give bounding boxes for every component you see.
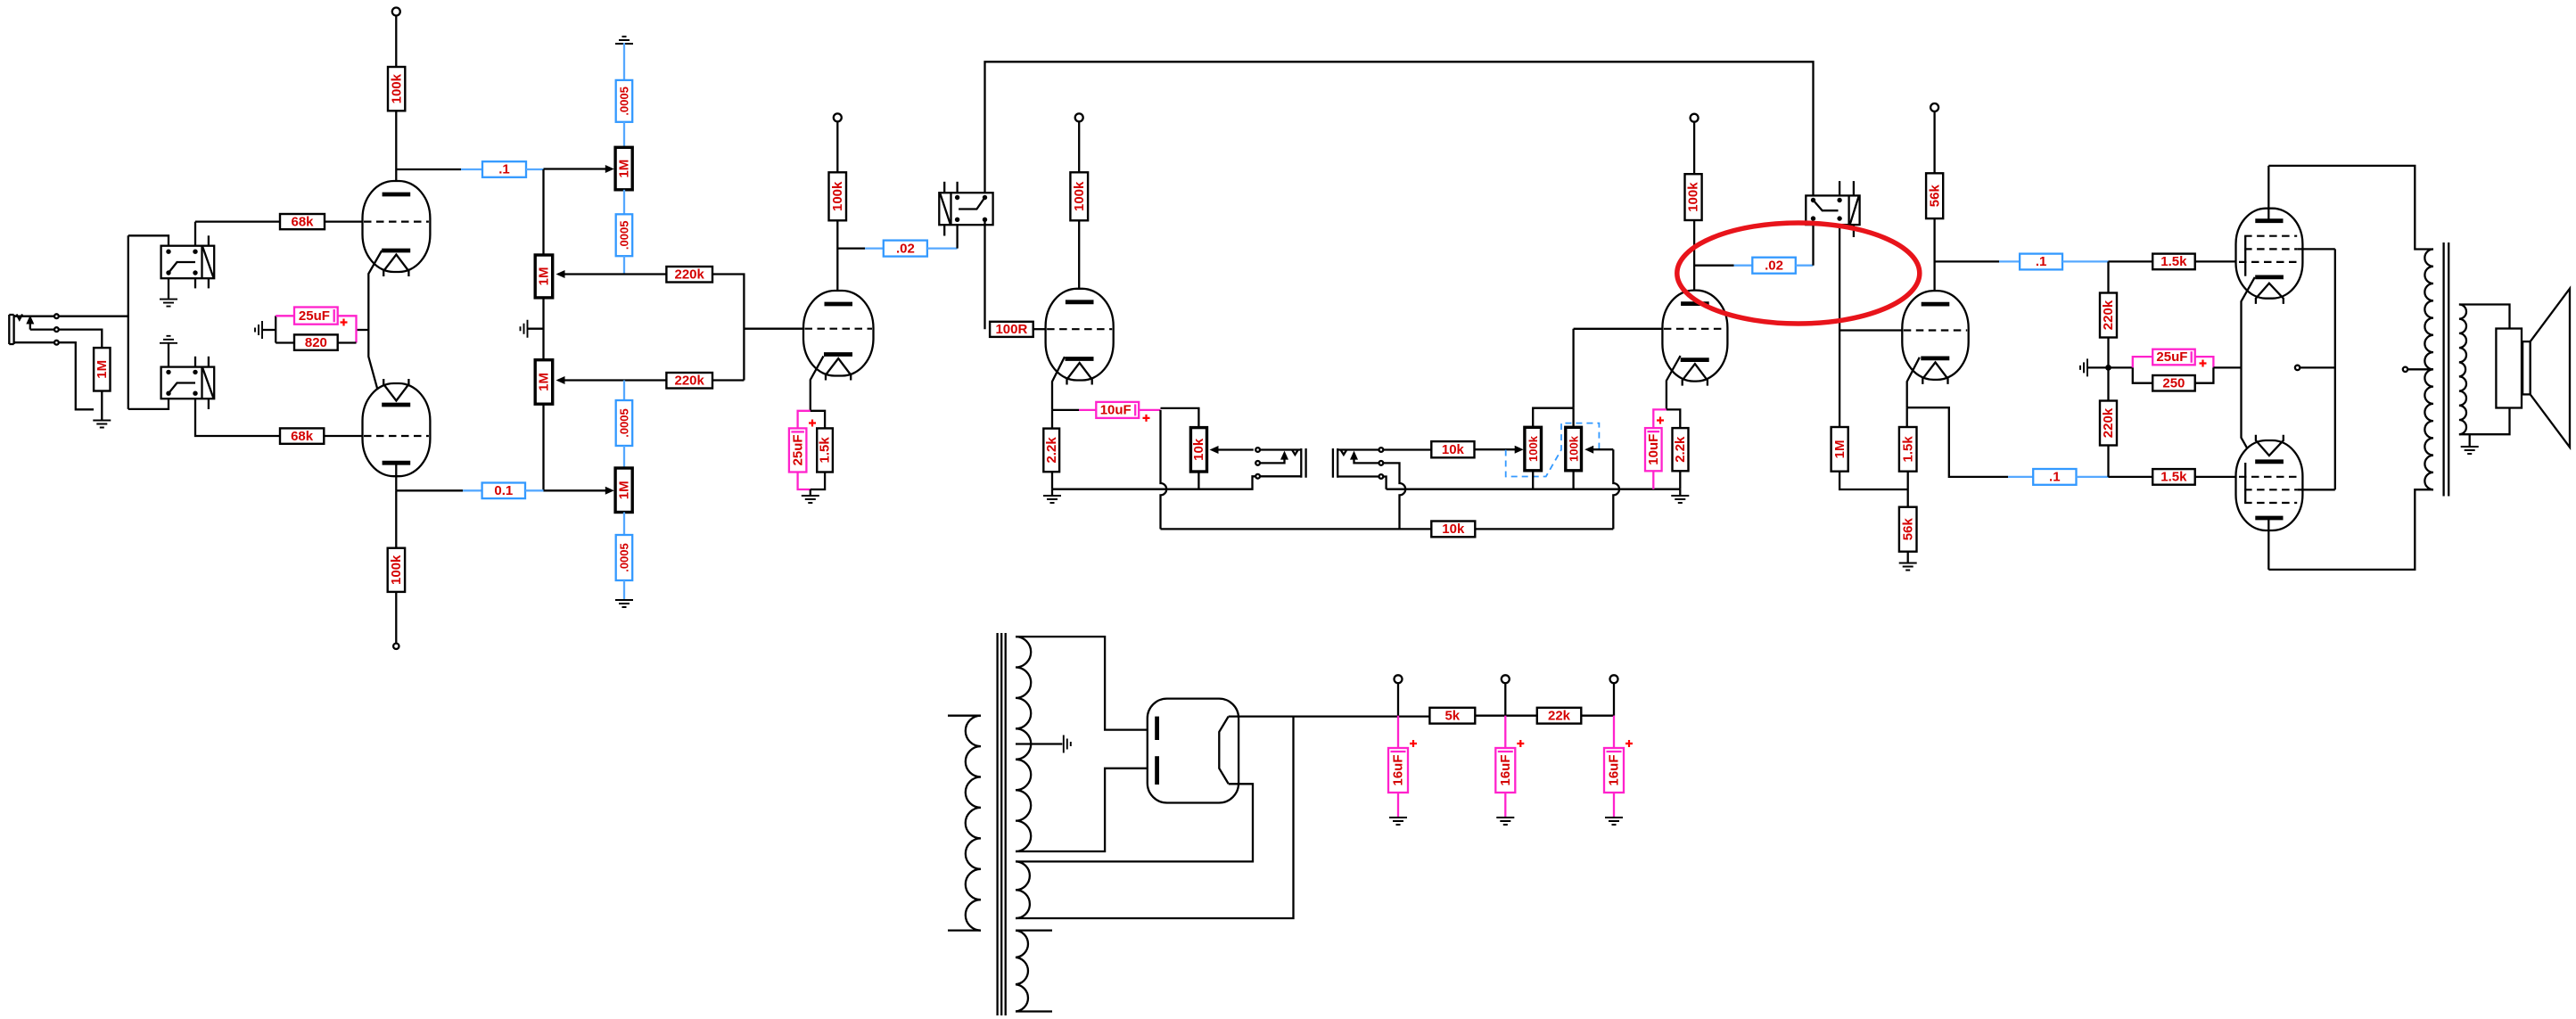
wire ground tap	[528, 328, 544, 330]
wire V1b plate lead	[395, 464, 397, 490]
switch S1 contacts	[955, 195, 959, 200]
wire terminal drop	[1397, 683, 1399, 716]
resistor R16 100k plate V3	[1685, 174, 1702, 220]
potentiometer VR5 10k	[1190, 428, 1206, 472]
triode V4 grid	[1904, 329, 1967, 331]
pentode P2 grid g3	[2244, 502, 2297, 504]
wire node to 1.5k	[2109, 260, 2153, 262]
wire ground stub	[2088, 366, 2109, 368]
svg-text:1M: 1M	[95, 360, 110, 379]
wire J3 tip to 10k	[1383, 448, 1431, 450]
wire VR6 to rail	[1532, 471, 1534, 489]
svg-text:100k: 100k	[389, 555, 404, 585]
stub S2 top contact	[1839, 181, 1840, 195]
wire 100R to V2b grid	[1033, 328, 1046, 330]
wire between pots	[542, 298, 544, 360]
wire 1M to node	[1839, 472, 1908, 489]
heater winding 6.3V	[1016, 931, 1028, 1012]
potentiometer VR6 100k	[1525, 427, 1542, 471]
wire cathode to 5V winding	[1016, 784, 1253, 861]
wire output cathodes link	[2242, 277, 2255, 462]
svg-text:100k: 100k	[1686, 182, 1701, 212]
wire grid row V3	[1574, 328, 1663, 330]
switch SW-A lever	[169, 262, 195, 273]
wire 68k to V1b grid	[324, 435, 362, 437]
terminal B+ V1	[392, 8, 400, 16]
capacitor C14 .1	[2033, 469, 2076, 485]
triode V2b heater	[1067, 363, 1092, 385]
svg-text:16uF: 16uF	[1607, 754, 1622, 785]
capacitor C11 .02	[1752, 258, 1796, 274]
stub SW-A lower contact	[194, 278, 196, 288]
wire blue .02 right	[1796, 265, 1814, 267]
wire .02 up to switch S1	[956, 225, 958, 248]
svg-text:56k: 56k	[1900, 518, 1915, 541]
svg-text:.1: .1	[498, 162, 510, 177]
wire jack sleeve lower	[14, 341, 54, 343]
svg-text:220k: 220k	[675, 373, 705, 388]
wire screen tap	[2300, 366, 2335, 368]
wire 56k to ground	[1907, 552, 1909, 563]
wire node to VR2 wiper	[558, 273, 624, 275]
node J2 tip	[1255, 448, 1260, 452]
wire 100k to V1a plate	[395, 111, 397, 193]
triode V4 heater	[1922, 362, 1947, 384]
pentode P2 grid g2	[2244, 489, 2297, 490]
wire S1 to 100R	[983, 219, 985, 329]
wire 16uF ground lead 2	[1504, 793, 1506, 817]
jack switch SW-B	[161, 367, 215, 399]
pentode P1 grid g2	[2244, 248, 2297, 250]
wire P2 plate lead	[2267, 520, 2269, 570]
wire tip contact lead	[29, 324, 31, 330]
wire to switch B bottom-left	[128, 399, 169, 409]
wire 2.2k top lead	[1667, 409, 1680, 428]
pentode P2 heater	[2256, 435, 2284, 456]
svg-text:68k: 68k	[291, 214, 314, 229]
triode V3 plate	[1681, 301, 1709, 306]
pentode P2 g3 tie	[2244, 463, 2246, 503]
stub S2 top	[1853, 181, 1855, 195]
wire plate node to .1	[1935, 260, 1999, 262]
wire 1.5k top lead	[811, 411, 825, 429]
capacitor C12 10uF	[1645, 428, 1662, 471]
wire blue cap to ground	[623, 580, 625, 599]
wire to ground	[1051, 489, 1053, 495]
wire 250 right lead	[2195, 367, 2214, 382]
pentode P2 cathode	[2255, 459, 2284, 464]
switch SW-B lever	[169, 383, 195, 394]
svg-text:820: 820	[305, 335, 327, 350]
resistor R26 1.5k grid	[2152, 469, 2195, 485]
wire tip to terminal 2	[30, 328, 54, 330]
pentode P1 plate	[2255, 218, 2283, 223]
resistor R4 100k plate V1a	[388, 67, 405, 111]
svg-text:22k: 22k	[1548, 708, 1571, 723]
wire node to 220k	[2107, 261, 2109, 292]
wire to tone pot top	[1161, 408, 1199, 428]
resistor R1 1M	[94, 348, 110, 390]
rectifier V5 envelope	[1148, 699, 1239, 803]
wire V1a-V1b cathode link	[368, 251, 382, 406]
wire terminal to 100k	[395, 16, 397, 68]
svg-text:25uF: 25uF	[790, 434, 805, 465]
jack switch SW-A	[161, 246, 215, 279]
wire 16uF lead 1	[1397, 716, 1399, 748]
wire .1 node to VR1 wiper	[544, 168, 610, 169]
ground secondary	[2461, 447, 2479, 454]
J3 body	[1333, 448, 1337, 478]
terminal screen supply	[2295, 366, 2300, 370]
pentode P1 cathode	[2255, 275, 2284, 279]
terminal B+ V3	[1691, 114, 1699, 122]
wire to V2a grid	[744, 328, 803, 330]
triode V1b envelope	[363, 383, 431, 476]
ground switch A	[160, 300, 177, 307]
triode V1b heater	[383, 379, 408, 401]
stub S1 top left	[943, 182, 945, 193]
svg-text:100k: 100k	[389, 73, 404, 103]
wire cathode rail to jack1 sleeve	[1052, 476, 1255, 489]
wire pot to 0.1 node	[542, 404, 544, 490]
wire lower bus to 10k	[1161, 528, 1432, 530]
svg-text:68k: 68k	[291, 429, 314, 444]
wire to 2.2k	[1051, 410, 1053, 429]
wire 10uF left lead	[1079, 409, 1096, 411]
capacitor C16 16uF	[1388, 748, 1408, 793]
wire HV centre tap	[1016, 743, 1062, 744]
wire J3 tip row	[1337, 448, 1379, 450]
wire 2.2k to rail	[1679, 471, 1681, 489]
jack tip contact arrow	[26, 316, 34, 325]
wire node to 220k	[624, 273, 666, 275]
wire J3 tip switch	[1354, 459, 1379, 463]
wire heater stub bottom	[1016, 1010, 1052, 1012]
svg-text:0.1: 0.1	[494, 483, 513, 498]
wire VR7 to rail	[1572, 471, 1574, 489]
capacitor C9 25uF	[789, 428, 807, 472]
wire to grid resistor	[59, 330, 103, 349]
rectifier plate 2	[1155, 756, 1159, 785]
svg-text:100R: 100R	[995, 322, 1027, 337]
svg-text:2.2k: 2.2k	[1673, 436, 1688, 463]
wire blue .1 left	[1999, 260, 2020, 262]
wire B+ rail from rectifier	[1229, 715, 1398, 717]
wire 10k to riser	[1475, 528, 1613, 530]
svg-text:100k: 100k	[830, 181, 845, 211]
wire HV bottom to plate	[1016, 768, 1156, 851]
pentode P1 g3 tie	[2244, 236, 2246, 276]
wire cathode to 1.5k	[1906, 407, 1908, 427]
node jack terminal 3	[54, 341, 59, 345]
wire blue .02 left	[865, 247, 884, 249]
svg-text:1.5k: 1.5k	[2160, 470, 2187, 485]
wire riser with hop	[1613, 449, 1619, 529]
triode V4 plate	[1922, 302, 1950, 307]
resistor R2 68k	[280, 214, 325, 229]
wire pot to rail	[1197, 472, 1199, 489]
node J2 sleeve	[1255, 474, 1260, 479]
svg-text:10k: 10k	[1191, 438, 1206, 461]
triode V1a envelope	[363, 181, 431, 272]
jack tip mark V	[17, 315, 23, 320]
ground filter cap 1	[1389, 818, 1407, 825]
wire 10uF drop with hop	[1161, 410, 1167, 530]
node J3 tip	[1379, 448, 1384, 452]
wire plate node to .02	[1694, 265, 1734, 267]
wire blue to .0005	[623, 43, 625, 80]
wire V3 cathode	[1667, 356, 1681, 409]
power transformer core	[998, 633, 1006, 1015]
resistor R18 1M	[1831, 427, 1848, 472]
wire terminal drop	[1504, 683, 1506, 715]
ground cathode bias	[255, 321, 262, 339]
node jack terminal 2	[54, 327, 59, 332]
wire P1 plate lead	[2267, 166, 2269, 219]
svg-text:.1: .1	[2036, 254, 2047, 269]
triode V1a heater	[383, 255, 408, 277]
J3 tip mark V	[1341, 450, 1346, 455]
resistor R17 2.2k	[1673, 428, 1689, 471]
pentode P2 grid g1	[2239, 476, 2297, 478]
triode V1a grid	[364, 221, 429, 223]
svg-text:25uF: 25uF	[2156, 349, 2187, 365]
svg-text:5k: 5k	[1444, 708, 1460, 723]
wire 5V winding to B+ rail	[1016, 717, 1294, 918]
resistor R12 100k plate V2b	[1070, 172, 1088, 220]
svg-text:220k: 220k	[2101, 407, 2116, 438]
wire V4 cathode	[1907, 357, 1920, 407]
pentode P1 envelope	[2236, 209, 2303, 299]
wire jack1 tip to VR5 wiper	[1213, 448, 1254, 450]
ground bottom of chain	[615, 600, 633, 607]
wire 16uF ground lead 1	[1397, 793, 1399, 817]
wire mains lead top	[948, 715, 981, 717]
wire blue pot to .0005	[623, 513, 625, 536]
ground top of chain	[615, 37, 633, 44]
wire secondary bottom	[2459, 408, 2510, 435]
polarity plus mark	[1625, 740, 1633, 747]
triode V1a plate	[383, 193, 411, 197]
svg-text:.0005: .0005	[618, 543, 631, 572]
switch SW-A contacts	[166, 250, 170, 254]
wire 1.5k to 56k	[1907, 472, 1909, 507]
triode V2a cathode	[824, 352, 852, 357]
wire 25uF right lead	[338, 316, 357, 342]
wire blue cap to pot	[623, 122, 625, 148]
polarity plus mark	[2200, 360, 2207, 367]
resistor R22 220k	[2100, 293, 2117, 338]
polarity plus mark	[1410, 740, 1417, 747]
wire centre tap lead	[2407, 368, 2433, 370]
svg-text:.02: .02	[1765, 258, 1783, 273]
triode V4 cathode	[1921, 356, 1949, 360]
wire 220k to lower node	[2107, 446, 2109, 477]
wire V2b cathode	[1052, 357, 1065, 410]
svg-text:1M: 1M	[1832, 440, 1848, 458]
stub S1 bottom	[943, 225, 945, 235]
svg-text:10k: 10k	[1442, 442, 1465, 457]
wire 250 left lead	[2133, 367, 2152, 382]
triode V3 cathode	[1681, 357, 1709, 362]
capacitor C17 16uF	[1495, 748, 1515, 793]
pentode P1 grid g1	[2239, 261, 2297, 263]
wire loop to 220k lower	[712, 379, 744, 381]
ground V2a cathode	[802, 496, 819, 503]
capacitor C15 25uF	[2152, 349, 2195, 366]
wire chassis to SW-B	[168, 342, 169, 367]
svg-text:1.5k: 1.5k	[818, 437, 833, 464]
wire 1.5k to P2 grid	[2195, 476, 2238, 478]
wire to ground bus	[59, 342, 94, 409]
wire ground rail right	[1387, 489, 1681, 490]
wire 10uF right lead	[1139, 409, 1160, 411]
terminal B+ preamp	[1610, 675, 1618, 683]
resistor R21 56k	[1899, 507, 1917, 552]
pentode P1 grid g3	[2244, 235, 2297, 237]
triode V1b cathode	[382, 403, 410, 407]
wire bias node to 220k	[2107, 367, 2109, 400]
wire 68k to V1a grid	[325, 220, 363, 222]
wire plate node to .02	[837, 247, 865, 249]
wire node down to 1M pot	[542, 169, 544, 255]
capacitor C6 .0005	[616, 400, 633, 446]
wire 1M to ground	[101, 391, 103, 420]
capacitor C3 0.1	[482, 483, 525, 499]
resistor R24 250	[2152, 375, 2195, 391]
stub SW-A bottom	[208, 278, 210, 288]
wire blue pot to .0005	[623, 190, 625, 215]
polarity plus mark	[1517, 740, 1524, 747]
resistor R13 2.2k	[1043, 429, 1059, 473]
wire J2 tip switch	[1260, 459, 1285, 463]
resistor R10 1.5k	[817, 428, 833, 472]
wire 10k to VR6 wiper	[1475, 448, 1522, 450]
wire secondary top	[2459, 305, 2510, 329]
triode V2a plate	[825, 302, 853, 307]
switch S1 lever	[959, 198, 984, 210]
capacitor C7 .0005	[616, 535, 633, 580]
node J2 ring	[1255, 461, 1260, 465]
gang link dashed	[1506, 423, 1600, 477]
potentiometer VR2 1M	[535, 255, 553, 298]
resistor R28 22k	[1537, 708, 1582, 724]
resistor R25 1.5k grid	[2152, 254, 2195, 270]
svg-text:220k: 220k	[2101, 300, 2116, 330]
wire cathode to bias network	[357, 329, 369, 331]
capacitor C4 .0005	[616, 80, 633, 122]
wire 100k to terminal	[395, 592, 397, 644]
triode V2a grid	[805, 328, 873, 330]
wire cathode to lower .1	[1907, 407, 2008, 477]
wire OT to P2 plate	[2268, 489, 2433, 570]
triode V4 envelope	[1902, 291, 1968, 380]
wire 16uF lead 3	[1613, 716, 1615, 748]
terminal B+ main	[1395, 675, 1403, 683]
wire 25uF top lead	[798, 411, 811, 429]
svg-text:.0005: .0005	[618, 221, 631, 251]
wire blue cap to node	[623, 256, 625, 274]
power transformer HV secondary	[1016, 637, 1031, 851]
wire 16uF ground lead 3	[1613, 793, 1615, 817]
svg-text:.0005: .0005	[618, 86, 631, 116]
capacitor C10 10uF	[1096, 402, 1139, 418]
resistor R11 100R	[990, 322, 1033, 337]
wire 1.5k to P1 grid	[2195, 260, 2238, 262]
potentiometer VR7 100k	[1566, 427, 1582, 471]
svg-text:56k: 56k	[1927, 185, 1942, 208]
capacitor C2 25uF	[294, 308, 338, 325]
svg-text:16uF: 16uF	[1498, 754, 1513, 785]
wire 100k to V2a plate	[836, 220, 838, 300]
wire bias to cathode line	[2213, 366, 2241, 368]
ground V3 cathode	[1671, 496, 1689, 503]
svg-text:250: 250	[2162, 375, 2185, 390]
capacitor C8 .02	[884, 241, 927, 257]
wire P1 screen lead	[2297, 248, 2335, 250]
wire blue .1 right	[2062, 260, 2109, 262]
stub S2 bottom	[1853, 225, 1855, 237]
wire blue lower .1 left	[2008, 476, 2033, 478]
wire 0.1 node to VR4 wiper	[544, 489, 610, 491]
wire S2 to 1M	[1839, 225, 1840, 427]
ground input	[93, 421, 111, 428]
svg-text:1M: 1M	[616, 160, 631, 178]
channel switch S1	[939, 193, 992, 225]
svg-text:1M: 1M	[537, 267, 552, 285]
pentode P2 envelope	[2236, 440, 2303, 530]
resistor R9 100k plate V2a	[829, 172, 847, 220]
pentode P2 plate	[2255, 516, 2283, 521]
triode V2a heater	[826, 358, 851, 381]
capacitor C5 .0005	[616, 214, 633, 256]
wire node to VR3 wiper	[558, 379, 624, 381]
wire 25uF right lead	[2195, 357, 2214, 367]
svg-text:1.5k: 1.5k	[1900, 436, 1915, 463]
wire 100k to V2b plate	[1078, 220, 1080, 300]
stub S1 top contact	[956, 182, 958, 193]
wire 10uF bottom lead	[1652, 471, 1654, 489]
pentode P1 heater	[2256, 284, 2284, 304]
ground HV centre tap	[1064, 735, 1071, 753]
svg-text:1M: 1M	[537, 373, 552, 391]
polarity plus mark	[1143, 415, 1150, 422]
wire J3 sleeve row	[1337, 475, 1379, 477]
wire 220k to node	[624, 379, 666, 381]
wire 100k to V3 plate	[1693, 220, 1695, 301]
svg-text:.1: .1	[2049, 470, 2061, 485]
wire blue node to .0005	[623, 381, 625, 401]
wire 220k to bias node	[2107, 338, 2109, 368]
wire riser to VR7 wiper	[1587, 448, 1613, 450]
wire terminal drop	[1613, 683, 1615, 715]
wire node to bias pair	[2109, 366, 2133, 368]
stub SW-B bottom	[208, 399, 210, 409]
wire grid row V4	[1839, 329, 1902, 331]
wire to ground	[1679, 489, 1681, 495]
svg-text:100k: 100k	[1527, 435, 1540, 462]
wire .02 up to switch S2	[1812, 225, 1814, 266]
triode V1b grid	[364, 435, 429, 437]
stub SW-B top	[208, 357, 210, 367]
resistor R8 220k	[666, 373, 712, 389]
resistor R23 220k	[2100, 401, 2117, 446]
terminal B+ V1b	[393, 644, 399, 649]
resistor R6 100k plate V1b	[388, 548, 405, 592]
ground V4 divider	[1899, 563, 1917, 571]
svg-text:10k: 10k	[1442, 522, 1465, 537]
svg-text:1.5k: 1.5k	[2160, 254, 2187, 269]
